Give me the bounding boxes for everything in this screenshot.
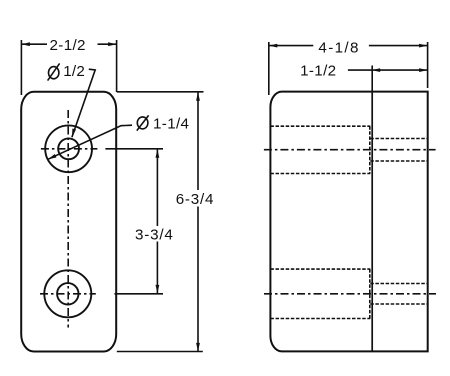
leader arrow for diameter 1/2 bbox=[70, 129, 76, 138]
dimension 6-3/4 bottom arrow bbox=[196, 343, 200, 352]
right view step edge line bbox=[371, 92, 373, 352]
dimension 6-3/4 top extension line bbox=[117, 91, 204, 93]
dimension 2-1/2 right arrow bbox=[108, 42, 117, 46]
svg-text:1-1/4: 1-1/4 bbox=[153, 116, 189, 133]
svg-text:2-1/2: 2-1/2 bbox=[50, 37, 86, 54]
lower counterbore hidden line end bbox=[369, 269, 371, 318]
dimension 4-1/8 right extension line bbox=[427, 42, 429, 88]
lower hole horizontal centerline bbox=[40, 293, 96, 295]
dimension 2-1/2 left extension line bbox=[20, 40, 22, 95]
dimension 6-3/4 bottom extension line bbox=[117, 351, 203, 353]
lower hole hidden line bottom bbox=[370, 303, 427, 305]
upper hole hidden line bottom bbox=[370, 160, 427, 162]
dimension 4-1/8 line right segment bbox=[369, 45, 428, 47]
dimension 2-1/2 line left segment bbox=[21, 43, 47, 45]
dimension 4-1/8 left arrow bbox=[269, 44, 278, 48]
dimension 6-3/4 line lower segment bbox=[197, 207, 199, 352]
upper hole side view centerline bbox=[264, 149, 436, 151]
dimension 6-3/4 line upper segment bbox=[197, 92, 199, 190]
lower hole counterbore circle bbox=[44, 270, 91, 317]
dimension 1-1/2 left arrow bbox=[372, 68, 381, 72]
dimension 3-3/4 upper extension line bbox=[105, 148, 163, 150]
right view outline bbox=[270, 92, 427, 352]
svg-text:3-3/4: 3-3/4 bbox=[135, 227, 173, 244]
lower counterbore hidden line top bbox=[270, 268, 370, 270]
left view outline bbox=[21, 92, 116, 352]
lower hole hidden line top bbox=[370, 283, 427, 285]
diameter symbol for 1/2 bbox=[48, 63, 60, 80]
dimension 2-1/2 right extension line bbox=[116, 40, 118, 92]
svg-text:1-1/2: 1-1/2 bbox=[300, 62, 336, 79]
upper counterbore hidden line top bbox=[270, 125, 370, 127]
upper counterbore hidden line bottom bbox=[270, 173, 370, 175]
svg-text:4-1/8: 4-1/8 bbox=[318, 39, 358, 56]
svg-text:1/2: 1/2 bbox=[63, 63, 85, 80]
diameter symbol for 1-1/4 bbox=[137, 115, 149, 130]
upper hole horizontal centerline bbox=[41, 148, 98, 150]
dimension 3-3/4 top arrow bbox=[156, 149, 160, 158]
upper hole hidden line top bbox=[370, 138, 427, 140]
upper counterbore hidden line end bbox=[369, 126, 371, 173]
svg-text:6-3/4: 6-3/4 bbox=[176, 191, 214, 208]
leader line for diameter 1-1/4 bbox=[48, 125, 132, 159]
leader arrow for diameter 1-1/4 bbox=[47, 154, 56, 161]
dimension 3-3/4 lower extension line bbox=[114, 293, 163, 295]
lower hole side view centerline bbox=[264, 293, 436, 295]
dimension 1-1/2 extension line above part bbox=[371, 66, 373, 92]
dimension 4-1/8 right arrow bbox=[419, 44, 428, 48]
dimension 2-1/2 line right segment bbox=[98, 43, 117, 45]
dimension 6-3/4 top arrow bbox=[196, 92, 200, 101]
lower hole inner circle bbox=[57, 283, 78, 304]
dimension 3-3/4 line upper segment bbox=[156, 149, 158, 226]
lower counterbore hidden line bottom bbox=[270, 318, 370, 320]
dimension 4-1/8 left extension line bbox=[268, 42, 270, 95]
dimension 2-1/2 left arrow bbox=[21, 42, 30, 46]
dimension 1-1/2 right arrow bbox=[419, 68, 428, 72]
dimension 4-1/8 line left segment bbox=[269, 45, 314, 47]
dimension 1-1/2 line bbox=[348, 69, 428, 71]
upper hole counterbore circle bbox=[45, 125, 92, 172]
vertical centerline through both holes bbox=[67, 110, 69, 328]
dimension 3-3/4 bottom arrow bbox=[156, 285, 160, 294]
leader line for diameter 1/2 bbox=[72, 69, 95, 137]
dimension 3-3/4 line lower segment bbox=[156, 242, 158, 294]
upper hole inner circle bbox=[58, 138, 79, 159]
